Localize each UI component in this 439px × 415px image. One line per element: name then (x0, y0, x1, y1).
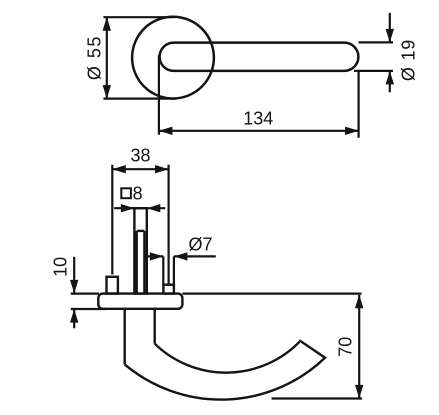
svg-text:Ø7: Ø7 (189, 235, 213, 255)
arrow 10 up (70, 309, 78, 323)
right fixing screw head (Ø7) (163, 285, 174, 294)
svg-text:70: 70 (336, 337, 356, 357)
svg-text:8: 8 (133, 183, 143, 203)
arrow Ø19 up (386, 71, 394, 85)
dim 10 extension line top (71, 293, 99, 295)
dim Ø19 dimension line upper (389, 13, 391, 43)
label square-8 symbol (121, 188, 131, 198)
svg-text:134: 134 (243, 108, 273, 128)
arrow 8 right (points left) (147, 204, 161, 212)
dim 70 extension line bottom (272, 397, 363, 399)
dim 134 extension line left (158, 55, 160, 135)
arrow 8 left (points right) (121, 204, 134, 212)
lever neck right line (front view) (153, 309, 155, 344)
svg-text:10: 10 (50, 257, 70, 277)
rosette plate (front view) (98, 294, 182, 309)
svg-text:38: 38 (130, 146, 150, 166)
arrow 38 right (155, 165, 169, 173)
lever curved grip (front view) (125, 341, 325, 400)
rosette circle (top view, Ø55) (132, 17, 214, 99)
dim Ø55 extension line bottom (103, 97, 176, 99)
arrow 134 right (345, 127, 359, 135)
arrow 70 down (355, 385, 363, 399)
dim Ø7 extension line left (162, 256, 164, 284)
lever handle capsule (top view, 134 long) (160, 43, 359, 71)
spindle inner neck left line (135, 231, 137, 294)
dim 8 dimension line (114, 207, 165, 209)
dim Ø19 extension line bottom (354, 70, 393, 72)
spindle inner neck right line (143, 231, 145, 294)
left fixing screw head (107, 277, 118, 294)
arrow Ø55 down (103, 85, 111, 99)
arrow 38 left (112, 165, 126, 173)
spindle inner neck top line (137, 230, 145, 232)
svg-text:Ø 55: Ø 55 (84, 35, 104, 80)
arrow Ø19 down (386, 29, 394, 43)
dim 70 extension line top (door face line) (182, 293, 361, 295)
dim 70 dimension line (358, 295, 360, 399)
dim 134 extension line right (358, 71, 360, 138)
arrow Ø55 up (103, 17, 111, 31)
dim Ø19 dimension line lower (389, 71, 391, 92)
lever neck left line (front view) (123, 309, 125, 365)
dim 134 dimension line (159, 130, 359, 132)
dim 38 dimension line (112, 168, 168, 170)
svg-text:Ø 19: Ø 19 (398, 39, 418, 81)
dim 10 dimension line upper (73, 257, 75, 294)
dim Ø7 extension line right (173, 256, 175, 284)
dim Ø55 extension line top (103, 16, 174, 18)
arrow 10 down (70, 280, 78, 294)
dim Ø19 extension line top (359, 41, 394, 43)
dim 10 dimension line lower (73, 309, 75, 328)
dim Ø7 dimension line left tail (146, 255, 164, 257)
arrow 134 left (159, 127, 173, 135)
arrow 70 up (355, 295, 363, 309)
spindle square bar (front view) (134, 208, 146, 293)
arrow Ø7 left (points right) (150, 252, 164, 260)
dim 10 extension line bottom (71, 308, 106, 310)
dim Ø55 dimension line (106, 17, 108, 98)
dim Ø7 dimension line right shelf (174, 255, 216, 257)
arrow Ø7 right (points left) (174, 252, 188, 260)
dim 38 extension line right (168, 165, 170, 284)
dim 38 extension line left (111, 165, 113, 275)
